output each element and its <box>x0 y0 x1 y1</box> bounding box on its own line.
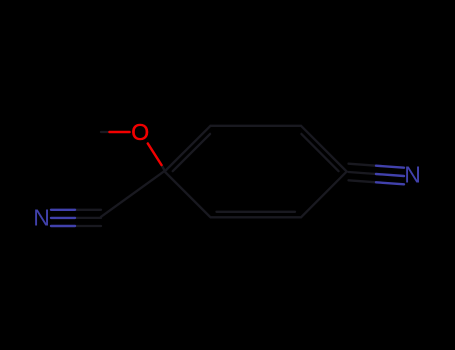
svg-text:N: N <box>33 205 50 231</box>
svg-text:O: O <box>131 119 149 145</box>
svg-text:N: N <box>404 162 421 188</box>
